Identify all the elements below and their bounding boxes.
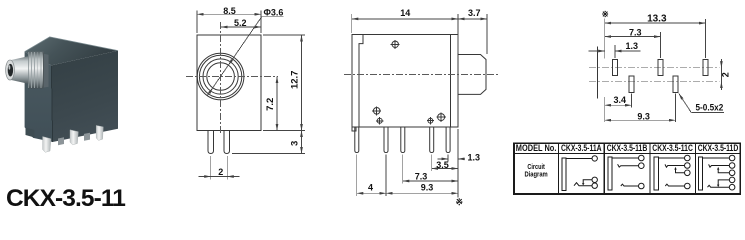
svg-text:2: 2 [720,72,730,77]
circuit C bottom terminal [685,183,691,189]
3d body front face [25,52,53,142]
front view pin right [224,131,230,154]
dim 5.2 [221,26,261,28]
top extension lines [351,14,353,33]
front view vertical centerline [220,22,222,134]
top view barrel front edge [596,47,598,99]
circuit A nc contact arrow [582,183,585,185]
circuit D terminal 4 [729,177,735,183]
front view jack barrel outer circle [197,53,244,100]
svg-text:※: ※ [602,9,609,19]
bottom extension lines [447,155,449,162]
3d barrel tip hole glint [9,65,11,69]
circuit C tip terminal [685,155,691,161]
circuit A nc contact L [583,180,592,184]
3d pin 2 [70,130,78,145]
3d back pin stub 2 [84,133,90,141]
svg-text:12.7: 12.7 [290,71,301,90]
dim 12.7 [301,35,303,131]
svg-text:Diagram: Diagram [524,170,547,179]
pin extension lines [210,156,212,180]
circuit B nc check contact [618,164,639,167]
circuit B tip terminal [639,155,645,161]
3d barrel nose cone [10,56,28,84]
circuit D terminal 3 [729,170,735,176]
side view barrel bushing [458,55,486,95]
circuit B bottom terminal [639,183,645,189]
circuit B sleeve bar [608,157,612,190]
svg-text:9.3: 9.3 [421,183,434,193]
side view cover step edge left [359,34,363,127]
dim 8.5 [197,13,261,15]
svg-text:7.2: 7.2 [265,98,276,111]
circuit D spring line [708,185,730,187]
dim 2 [199,176,211,178]
circuit D riser upper with arrow [718,169,729,173]
circuit D sleeve bar [699,157,703,190]
circuit A tip terminal [592,156,597,161]
side pin 5 [446,127,450,153]
circuit C riser with arrow [676,169,685,173]
lower row centerline [589,81,720,83]
svg-text:3.5: 3.5 [436,160,449,170]
svg-text:5-0.5x2: 5-0.5x2 [696,103,724,113]
dim 3 vertical [301,131,303,154]
dia 3.6 arrows on circle [228,58,233,65]
svg-text:3.7: 3.7 [468,8,481,18]
dim 9.3 top view [675,94,677,123]
svg-text:MODEL No.: MODEL No. [516,143,557,153]
circuit C sleeve bar [654,157,658,190]
3d body top face [25,37,118,66]
rivet symbol mid left lower [376,117,383,124]
circuit C tip line [658,157,684,159]
side pin 3 [401,127,405,153]
circuit A switch spring line [574,183,592,186]
dim 9.3 [386,192,458,194]
svg-text:CKX-3.5-11D: CKX-3.5-11D [698,143,739,153]
front view pin left [208,131,214,154]
3d front-right edge [51,65,52,142]
3d barrel knurl ring [28,52,43,89]
reference plane extension upper [604,18,606,58]
3d body edge highlight [25,37,118,52]
circuit A [562,156,598,191]
svg-text:2: 2 [218,167,223,177]
rivet symbol top [391,40,400,49]
svg-text:Φ3.6: Φ3.6 [264,8,284,18]
circuit C [654,155,690,190]
svg-text:1.3: 1.3 [468,153,481,163]
circuit C terminal 2 [685,163,691,169]
svg-text:CKX-3.5-11B: CKX-3.5-11B [607,143,648,153]
3d barrel base [44,54,49,88]
side view mounting tab bottom left [352,127,356,131]
side view body outline [352,34,458,127]
dim 1.3 top view (outside arrows) [614,45,616,58]
svg-text:9.3: 9.3 [637,111,650,121]
3d body right face [51,51,118,142]
dim 13.3 [705,19,707,58]
dim 1.3 (outside arrows) [438,158,449,160]
table header separator [514,152,740,154]
side view inner edge right [450,34,452,127]
circuit A sleeve bar [562,158,566,191]
circuit C check contact line [665,164,684,167]
circuit D tip terminal [729,155,735,161]
3d bottom left tab [26,128,35,138]
svg-text:3.4: 3.4 [614,95,627,105]
front view horizontal centerline [186,76,278,78]
table outer border [514,143,740,194]
dia 3.6 leader diagonal through circle [207,17,262,96]
table column lines [557,143,559,194]
dim 14 [352,18,458,20]
front view barrel ring circle 3 [203,59,238,94]
svg-text:4: 4 [368,183,373,193]
circuit D L connector lower [718,180,729,185]
svg-text:7.3: 7.3 [629,27,642,37]
front view barrel ring circle 2 [199,55,241,97]
dim 7.2 [276,77,278,131]
circuit B [608,155,644,190]
upper row centerline [589,67,720,69]
circuit A switch lower terminal [592,183,597,188]
svg-text:14: 14 [400,8,410,18]
dim 2 (outside arrows) [720,59,722,67]
pad pin C [658,59,663,75]
circuit B spring line [621,184,639,186]
circuit C terminal 3 [685,170,691,176]
pad pin A [612,59,617,75]
svg-text:CKX-3.5-11: CKX-3.5-11 [6,185,125,210]
svg-text:3: 3 [290,141,301,146]
front view hole circle dia 3.6 [207,63,235,91]
side pin 2 [384,127,388,153]
front view body outline [197,35,261,131]
svg-text:13.3: 13.3 [647,14,667,25]
circuit D terminal 2 [729,163,735,169]
rivet symbol mid left upper [372,106,381,115]
circuit C spring line [665,184,684,186]
3d pin 1 [43,137,51,153]
dim 4 [357,192,386,194]
side pin 4 [430,127,434,153]
extension lines for width dims [196,11,198,34]
dim 3.4 [631,94,633,108]
3d pin 3 [96,125,103,140]
dim 7.3 top view [660,32,662,58]
rivet symbol right small [427,117,434,124]
dim 7.3 [403,180,458,182]
circuit B mid terminal [639,163,645,169]
pad pin D [673,76,678,92]
dim 3.5 [432,168,458,170]
3d barrel tip face [6,60,15,80]
pad pin B [629,76,634,92]
3d back pin stub 1 [58,137,64,145]
circuit D terminal 5 [729,184,735,190]
svg-text:5.2: 5.2 [234,18,247,28]
3d barrel tip hole [8,64,13,77]
svg-text:※: ※ [456,197,464,207]
dia 3.6 leader underline [262,16,284,18]
side pin 1 [355,127,359,153]
right extension lines [263,34,305,36]
circuit A nc upper terminal [592,177,597,182]
svg-text:7.3: 7.3 [415,171,428,181]
dim 3.7 [458,18,487,20]
svg-text:1.3: 1.3 [626,41,639,51]
3d barrel knurl lines [31,52,41,88]
side view centerline [344,73,500,75]
circuit D tip line [703,157,730,159]
svg-text:CKX-3.5-11A: CKX-3.5-11A [561,143,602,153]
circuit B tip line [612,157,638,159]
circuit D [699,155,735,190]
pad pin E [703,59,708,75]
svg-text:8.5: 8.5 [223,6,236,16]
circuit A tip line [566,157,592,159]
svg-text:CKX-3.5-11C: CKX-3.5-11C [652,143,693,153]
circuit D check contact line [709,164,730,167]
reference plane extension lower [604,97,606,122]
rivet symbol right large [436,112,446,122]
